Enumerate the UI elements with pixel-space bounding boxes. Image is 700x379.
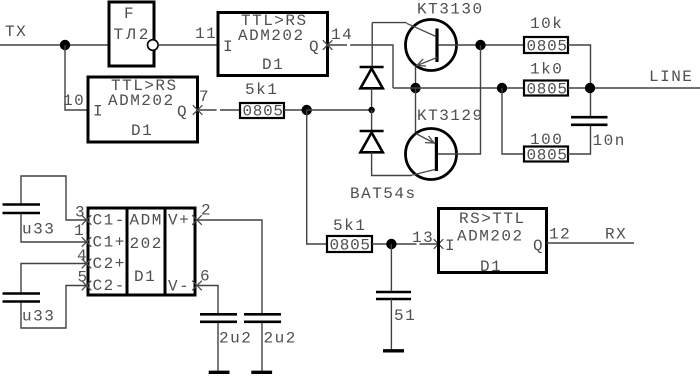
svg-text:2u2: 2u2 bbox=[219, 330, 252, 348]
resistor R4 0805 body bbox=[327, 236, 372, 252]
wire R3 right to LINE node bbox=[568, 87, 700, 89]
svg-text:TX: TX bbox=[5, 23, 27, 41]
svg-text:V-: V- bbox=[168, 278, 190, 296]
pin marker X at pin 14 bbox=[323, 40, 333, 50]
node junction between diodes bbox=[368, 107, 374, 113]
wire node down to R4 bbox=[307, 110, 327, 244]
node junction after R1 bbox=[302, 105, 312, 115]
svg-text:LINE: LINE bbox=[649, 68, 693, 86]
wire diode VD2 anode to KT3129 base bbox=[372, 152, 412, 175]
svg-text:2: 2 bbox=[201, 202, 212, 220]
diode VD1 upper (BAT54s) bbox=[360, 67, 384, 88]
wire C1 top to pin 3 bbox=[21, 176, 88, 220]
wire 100 left branch bbox=[502, 88, 524, 154]
svg-text:0805: 0805 bbox=[527, 38, 568, 56]
divider right column bbox=[164, 208, 167, 295]
svg-text:3: 3 bbox=[75, 204, 86, 222]
wire KT3130 base top bbox=[372, 22, 406, 24]
pin marker X pin 5 bbox=[82, 281, 92, 291]
wire VT1 collector to node bbox=[439, 44, 524, 46]
wire C4 to ground bbox=[261, 323, 263, 371]
svg-text:C2+: C2+ bbox=[93, 255, 126, 273]
wire bubble to pin 11 bbox=[158, 44, 218, 46]
wire pin 14 lead bbox=[328, 44, 347, 46]
wire node to diodes bbox=[307, 109, 372, 111]
svg-text:I: I bbox=[93, 103, 104, 121]
svg-text:BAT54s: BAT54s bbox=[350, 185, 417, 203]
svg-text:C1+: C1+ bbox=[93, 234, 126, 252]
svg-text:5k1: 5k1 bbox=[245, 81, 278, 99]
svg-text:4: 4 bbox=[77, 247, 88, 265]
schmitt trigger DD1 TL2 box bbox=[109, 2, 154, 66]
node junction emitters bbox=[410, 83, 420, 93]
svg-text:0805: 0805 bbox=[527, 81, 568, 99]
svg-text:10k: 10k bbox=[530, 15, 563, 33]
transistor VT2 KT3129 bbox=[406, 129, 457, 180]
wire pin 6 V- to C3 bbox=[196, 286, 218, 314]
capacitor C4 2u2 bbox=[244, 314, 281, 322]
wire mid node to diode VD2 bbox=[371, 110, 373, 131]
wire middle rail y88 bbox=[393, 87, 524, 89]
svg-text:5k1: 5k1 bbox=[333, 217, 366, 235]
node junction LINE bbox=[585, 83, 595, 93]
transistor VT1 KT3130 bbox=[406, 20, 457, 71]
svg-text:12: 12 bbox=[549, 226, 571, 244]
svg-text:F: F bbox=[124, 5, 135, 23]
wire R1 to node bbox=[284, 109, 307, 111]
svg-text:C2-: C2- bbox=[93, 277, 126, 295]
wire diode VD1 anode to mid node bbox=[371, 88, 373, 110]
resistor R3 0805 body bbox=[524, 81, 568, 96]
svg-text:V+: V+ bbox=[168, 212, 190, 230]
svg-text:Q: Q bbox=[533, 237, 544, 255]
pin marker X at pin 13 bbox=[434, 239, 444, 249]
wire pin 7 lead bbox=[198, 109, 217, 111]
svg-text:5: 5 bbox=[78, 269, 89, 287]
node junction at pin 13 bbox=[386, 239, 396, 249]
svg-text:11: 11 bbox=[195, 25, 217, 43]
wire C2 bottom to pin 5 bbox=[21, 286, 88, 329]
diode VD2 lower (BAT54s) bbox=[360, 131, 384, 152]
capacitor C6 51 bbox=[376, 292, 411, 299]
svg-text:RS>TTL: RS>TTL bbox=[459, 210, 526, 228]
svg-text:KT3129: KT3129 bbox=[417, 107, 484, 125]
wire emitter node to KT3129 bbox=[415, 88, 417, 134]
svg-text:0805: 0805 bbox=[330, 237, 371, 255]
svg-text:51: 51 bbox=[394, 307, 416, 325]
pin marker X pin 3 bbox=[82, 215, 92, 225]
svg-text:ТЛ2: ТЛ2 bbox=[114, 26, 152, 44]
svg-text:D1: D1 bbox=[134, 268, 156, 286]
ground symbol C6 bbox=[383, 349, 404, 352]
svg-text:KT3130: KT3130 bbox=[417, 1, 484, 19]
svg-text:ADM: ADM bbox=[130, 212, 163, 230]
svg-text:D1: D1 bbox=[262, 56, 284, 74]
capacitor C2 u33 bbox=[3, 294, 41, 302]
svg-text:ADM202: ADM202 bbox=[457, 228, 524, 246]
pin marker X pin 4 bbox=[82, 259, 92, 269]
svg-text:ADM202: ADM202 bbox=[108, 92, 175, 110]
svg-text:RX: RX bbox=[605, 226, 627, 244]
capacitor C3 2u2 bbox=[200, 314, 237, 322]
resistor R2 0805 body bbox=[524, 37, 568, 53]
svg-text:D1: D1 bbox=[480, 258, 502, 276]
inverter output bubble bbox=[148, 40, 159, 51]
svg-text:1k0: 1k0 bbox=[530, 61, 563, 79]
ground symbol C4 bbox=[251, 371, 272, 374]
wire pin 7 to resistor bbox=[220, 109, 240, 111]
wire VT1 emitter down bbox=[415, 66, 417, 88]
svg-text:0805: 0805 bbox=[243, 103, 284, 121]
wire R2 right bbox=[568, 45, 591, 116]
svg-text:u33: u33 bbox=[22, 221, 55, 239]
capacitor C1 u33 bbox=[3, 205, 41, 214]
wire from TX junction down to pin 10 bbox=[65, 45, 88, 110]
capacitor C5 10n bbox=[571, 117, 608, 125]
wire pin 2 V+ to C4 bbox=[196, 220, 262, 314]
svg-text:ADM202: ADM202 bbox=[238, 27, 305, 45]
svg-text:7: 7 bbox=[199, 88, 210, 106]
resistor R1 0805 body bbox=[240, 103, 284, 118]
svg-text:13: 13 bbox=[412, 229, 434, 247]
divider left column bbox=[126, 208, 129, 295]
svg-text:D1: D1 bbox=[131, 122, 153, 140]
IC D1 charge pump ADM202 box bbox=[88, 208, 195, 295]
wire C1 bottom to pin 1 bbox=[21, 214, 88, 242]
IC D1 lower TTL>RS ADM202 box bbox=[88, 77, 198, 142]
svg-text:10: 10 bbox=[63, 92, 85, 110]
svg-text:u33: u33 bbox=[22, 308, 55, 326]
svg-text:C1-: C1- bbox=[93, 212, 126, 230]
wire pin 13 lead bbox=[420, 243, 439, 245]
wire RX output bbox=[547, 242, 635, 244]
pin marker X pin 1 bbox=[82, 237, 92, 247]
pin marker X pin 2 bbox=[192, 215, 202, 225]
pin marker X pin 6 bbox=[192, 281, 202, 291]
node junction collectors bbox=[475, 40, 485, 50]
wire node to C6 bbox=[390, 244, 392, 291]
wire pin 14 to base corner bbox=[350, 45, 393, 88]
svg-text:2u2: 2u2 bbox=[264, 330, 297, 348]
wire TX input bbox=[0, 44, 109, 46]
svg-text:202: 202 bbox=[130, 235, 163, 253]
pin marker X at pin 7 bbox=[193, 105, 203, 115]
svg-text:1: 1 bbox=[74, 222, 85, 240]
svg-text:10n: 10n bbox=[593, 132, 626, 150]
svg-text:6: 6 bbox=[200, 268, 211, 286]
IC D1 upper TTL>RS ADM202 box bbox=[218, 13, 328, 76]
svg-text:Q: Q bbox=[177, 103, 188, 121]
svg-text:I: I bbox=[223, 38, 234, 56]
wire C2 top to pin 4 bbox=[21, 264, 88, 293]
svg-text:14: 14 bbox=[331, 26, 353, 44]
wire R5 right up to cap bbox=[568, 126, 591, 154]
node junction rail-100 bbox=[497, 83, 507, 93]
ground symbol C3 bbox=[209, 371, 230, 374]
resistor R5 0805 body bbox=[524, 147, 568, 162]
wire R4 to node bbox=[372, 243, 417, 245]
wire C6 to ground bbox=[390, 299, 392, 350]
svg-text:0805: 0805 bbox=[527, 147, 568, 165]
node junction at TX split bbox=[60, 40, 70, 50]
wire diode VD1 cathode up bbox=[371, 23, 373, 66]
svg-text:Q: Q bbox=[309, 38, 320, 56]
wire C3 to ground bbox=[217, 323, 219, 371]
IC D1 RS>TTL ADM202 box bbox=[439, 209, 547, 273]
wire VT2 collector up to node bbox=[438, 45, 481, 154]
svg-text:I: I bbox=[445, 237, 456, 255]
